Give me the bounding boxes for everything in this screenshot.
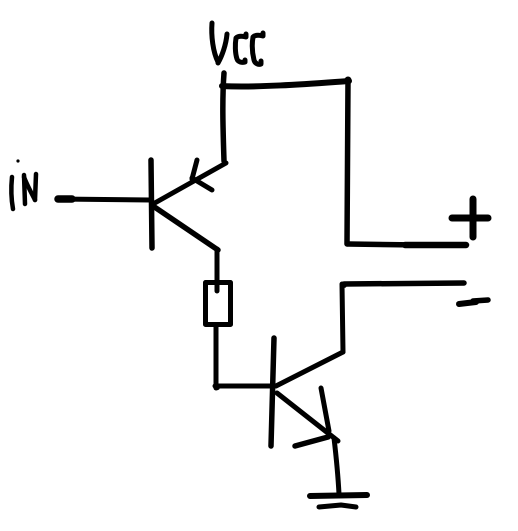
node top-right corner junction <box>345 77 352 84</box>
wire Q2 emitter to ground <box>334 438 339 494</box>
wire Q1 collector to resistor <box>215 249 220 291</box>
label - (inverting output) <box>459 300 488 304</box>
resistor R1 <box>206 283 231 325</box>
wire top rail horizontal <box>222 81 349 86</box>
wire input to Q1 base <box>57 199 150 200</box>
wire resistor to Q2 base <box>214 327 274 390</box>
transistor Q2 (NPN output) <box>271 338 343 446</box>
wire right vertical drop <box>347 81 348 244</box>
transistor Q1 (PNP input) <box>151 160 226 250</box>
label + (non-inverting output) <box>452 199 488 237</box>
wire Vcc stub down to Q1 emitter <box>223 73 224 161</box>
label IN <box>11 159 36 209</box>
label Vcc <box>212 23 263 64</box>
wire non-inverting output (+) <box>348 244 466 245</box>
ground <box>310 495 367 507</box>
wire Q2 collector to inverting output (-) <box>341 282 464 352</box>
